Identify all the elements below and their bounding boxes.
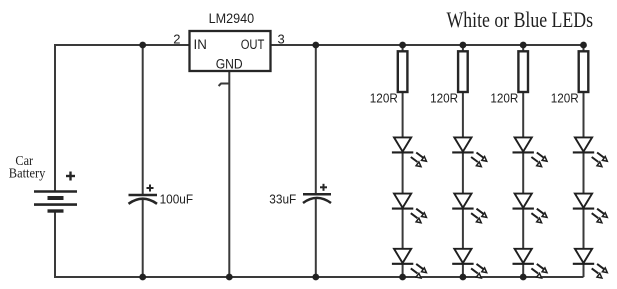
svg-text:OUT: OUT	[241, 37, 265, 52]
svg-text:LM2940: LM2940	[209, 11, 255, 26]
svg-text:IN: IN	[194, 37, 207, 52]
svg-text:120R: 120R	[490, 91, 518, 105]
svg-text:120R: 120R	[430, 91, 458, 105]
svg-text:33uF: 33uF	[269, 191, 296, 206]
svg-text:White or Blue LEDs: White or Blue LEDs	[447, 7, 594, 32]
svg-text:GND: GND	[216, 57, 243, 72]
svg-text:Battery: Battery	[9, 166, 46, 181]
svg-text:2: 2	[173, 32, 180, 47]
svg-text:120R: 120R	[370, 91, 398, 105]
svg-text:120R: 120R	[551, 91, 579, 105]
svg-text:100uF: 100uF	[160, 192, 194, 207]
svg-text:3: 3	[278, 32, 285, 47]
